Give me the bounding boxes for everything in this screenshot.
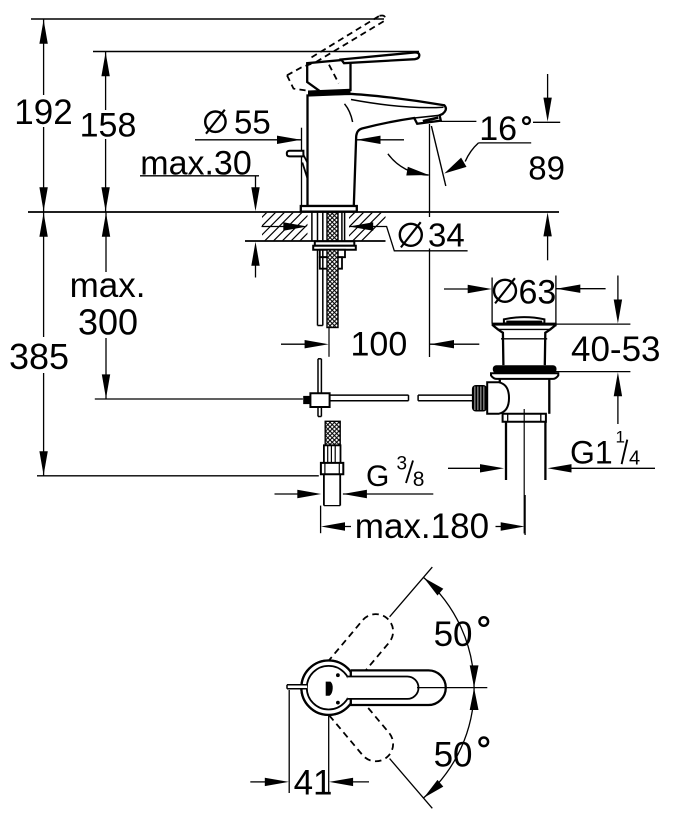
svg-text:63: 63: [519, 274, 557, 312]
svg-text:1: 1: [616, 428, 625, 447]
svg-text:100: 100: [351, 326, 408, 364]
svg-text:50: 50: [434, 615, 473, 654]
svg-text:192: 192: [14, 93, 72, 132]
svg-text:8: 8: [413, 468, 425, 491]
svg-text:max.: max.: [70, 266, 146, 305]
svg-text:50: 50: [434, 735, 473, 774]
svg-text:G1: G1: [570, 435, 613, 471]
svg-text:max.180: max.180: [355, 507, 489, 546]
svg-text:385: 385: [9, 336, 69, 377]
svg-text:89: 89: [528, 149, 565, 186]
svg-text:4: 4: [629, 448, 640, 470]
svg-text:G: G: [366, 460, 389, 493]
svg-text:300: 300: [78, 302, 138, 343]
svg-text:40-53: 40-53: [571, 330, 661, 369]
svg-text:158: 158: [80, 107, 137, 145]
svg-text:3: 3: [397, 454, 408, 475]
svg-text:max.30: max.30: [140, 145, 252, 183]
svg-text:34: 34: [428, 216, 465, 253]
svg-text:55: 55: [234, 104, 271, 141]
svg-text:41: 41: [294, 764, 333, 803]
